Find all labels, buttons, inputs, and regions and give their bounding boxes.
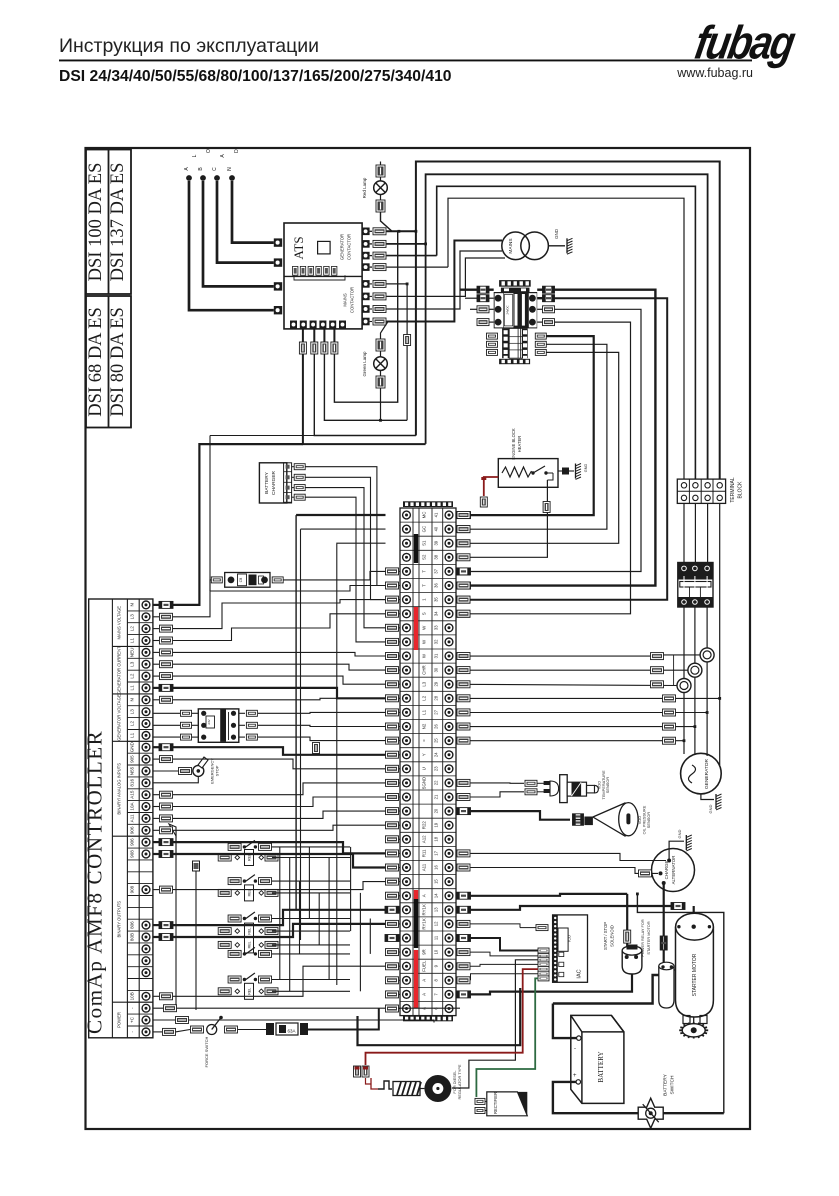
svg-text:A: A xyxy=(422,993,427,996)
svg-text:GENERATOR VOLTAGE: GENERATOR VOLTAGE xyxy=(117,694,122,741)
svg-text:HEATER: HEATER xyxy=(517,436,522,453)
svg-text:905: 905 xyxy=(130,755,135,763)
svg-text:NEU: NEU xyxy=(130,648,135,658)
svg-text:38: 38 xyxy=(434,554,439,559)
svg-text:STARTER MOTOR: STARTER MOTOR xyxy=(646,921,651,954)
svg-text:24: 24 xyxy=(434,752,439,757)
svg-text:29: 29 xyxy=(434,681,439,686)
svg-text:RY1K: RY1K xyxy=(422,918,427,929)
svg-text:12: 12 xyxy=(434,921,439,926)
svg-text:N: N xyxy=(130,603,135,606)
svg-text:906: 906 xyxy=(130,838,135,846)
svg-text:MAINS: MAINS xyxy=(508,238,514,253)
svg-text:U: U xyxy=(422,767,427,770)
svg-text:GC: GC xyxy=(422,526,427,533)
svg-text:GND: GND xyxy=(130,741,135,752)
svg-text:32: 32 xyxy=(434,639,439,644)
svg-text:17: 17 xyxy=(434,850,439,855)
svg-text:S2: S2 xyxy=(422,554,427,560)
svg-text:-: - xyxy=(574,1046,576,1052)
svg-text:A: A xyxy=(422,979,427,982)
svg-text:33: 33 xyxy=(434,625,439,630)
svg-text:RECTIFIER: RECTIFIER xyxy=(493,1092,498,1114)
svg-text:20: 20 xyxy=(434,808,439,813)
svg-text:SWITCH: SWITCH xyxy=(670,1075,676,1094)
svg-text:25: 25 xyxy=(434,738,439,743)
svg-text:CHARGER: CHARGER xyxy=(271,470,277,495)
svg-text:ENGINE BLOCK: ENGINE BLOCK xyxy=(511,428,516,460)
svg-text:MAINS VOLTAGE: MAINS VOLTAGE xyxy=(117,606,122,640)
svg-text:27: 27 xyxy=(434,709,439,714)
svg-text:ATS: ATS xyxy=(291,236,306,259)
svg-text:fubag: fubag xyxy=(691,17,799,70)
svg-text:GND: GND xyxy=(677,829,682,838)
svg-text:CHR: CHR xyxy=(422,665,427,675)
svg-text:BLOCK: BLOCK xyxy=(738,481,744,499)
svg-text:S1: S1 xyxy=(422,540,427,546)
svg-text:806: 806 xyxy=(130,921,135,929)
svg-text:MAINS: MAINS xyxy=(343,293,348,306)
svg-text:BATTERY: BATTERY xyxy=(264,471,270,493)
svg-text:37: 37 xyxy=(434,568,439,573)
svg-text:L3: L3 xyxy=(130,661,135,667)
svg-text:N: N xyxy=(227,167,233,171)
svg-text:28: 28 xyxy=(434,695,439,700)
svg-text:34: 34 xyxy=(434,611,439,616)
svg-text:10B: 10B xyxy=(130,992,135,1000)
svg-text:L2: L2 xyxy=(130,673,135,679)
svg-text:N2: N2 xyxy=(422,723,427,729)
svg-text:CB: CB xyxy=(239,578,243,582)
svg-text:STARTER MOTOR: STARTER MOTOR xyxy=(692,953,698,996)
svg-text:31: 31 xyxy=(434,653,439,658)
svg-text:POWER: POWER xyxy=(117,1012,122,1028)
svg-text:R22: R22 xyxy=(422,821,427,830)
svg-text:L3: L3 xyxy=(130,614,135,620)
svg-text:13: 13 xyxy=(434,907,439,912)
svg-text:Y: Y xyxy=(422,753,427,756)
svg-text:35: 35 xyxy=(434,597,439,602)
svg-text:RY1K: RY1K xyxy=(422,904,427,915)
svg-text:TCU: TCU xyxy=(568,935,572,943)
svg-text:BINARY/ ANALOG INPUTS: BINARY/ ANALOG INPUTS xyxy=(117,763,122,815)
svg-text:9R: 9R xyxy=(422,949,427,955)
svg-text:REGULATOR TYPE: REGULATOR TYPE xyxy=(457,1064,462,1099)
svg-text:REL: REL xyxy=(248,928,252,935)
svg-text:L2: L2 xyxy=(130,721,135,727)
svg-text:CONTACTOR: CONTACTOR xyxy=(350,287,355,313)
svg-text:S: S xyxy=(422,612,427,615)
svg-text:Green Lamp: Green Lamp xyxy=(362,351,367,377)
svg-text:Инструкция по эксплуатации: Инструкция по эксплуатации xyxy=(59,35,319,57)
svg-text:11: 11 xyxy=(434,935,439,940)
svg-text:908: 908 xyxy=(130,850,135,858)
svg-text:A12: A12 xyxy=(422,835,427,843)
svg-text:41: 41 xyxy=(434,512,439,517)
svg-text:18: 18 xyxy=(434,836,439,841)
svg-text:DSI 24/34/40/50/55/68/80/100/1: DSI 24/34/40/50/55/68/80/100/137/165/200… xyxy=(59,68,452,85)
svg-text:POWER RELAY FOR: POWER RELAY FOR xyxy=(640,919,645,957)
svg-text:L2: L2 xyxy=(130,626,135,632)
svg-text:DSI 137 DA ES: DSI 137 DA ES xyxy=(108,163,128,282)
svg-text:10A: 10A xyxy=(130,801,135,810)
svg-text:DSI 100 DA ES: DSI 100 DA ES xyxy=(86,163,106,282)
svg-text:10: 10 xyxy=(434,949,439,954)
svg-text:30: 30 xyxy=(434,667,439,672)
svg-text:5GND: 5GND xyxy=(422,777,427,789)
svg-text:GND: GND xyxy=(708,804,713,813)
svg-text:26: 26 xyxy=(434,724,439,729)
svg-text:L1: L1 xyxy=(130,732,135,738)
svg-text:L3: L3 xyxy=(422,681,427,686)
svg-text:SENSOR: SENSOR xyxy=(646,812,651,829)
svg-text:REL: REL xyxy=(248,889,252,896)
svg-text:L1: L1 xyxy=(130,638,135,644)
svg-text:BATTERY: BATTERY xyxy=(597,1051,605,1082)
svg-text:DSI 80 DA ES: DSI 80 DA ES xyxy=(108,307,128,416)
svg-text:GENERATOR: GENERATOR xyxy=(340,234,345,260)
svg-text:IAC: IAC xyxy=(577,969,583,978)
svg-text:N: N xyxy=(130,698,135,701)
svg-text:908: 908 xyxy=(130,885,135,893)
svg-text:L: L xyxy=(192,154,198,157)
svg-text:BINARY OUTPUTS: BINARY OUTPUTS xyxy=(117,901,122,938)
svg-text:36: 36 xyxy=(434,583,439,588)
svg-text:Red Lamp: Red Lamp xyxy=(362,177,367,198)
svg-text:23: 23 xyxy=(434,766,439,771)
svg-text:63A: 63A xyxy=(288,1029,296,1034)
svg-text:=: = xyxy=(422,739,427,742)
svg-text:A11: A11 xyxy=(130,814,135,822)
svg-text:FORCE SWITCH: FORCE SWITCH xyxy=(204,1036,209,1067)
svg-text:21: 21 xyxy=(434,794,439,799)
svg-text:T: T xyxy=(422,584,427,587)
svg-text:REL: REL xyxy=(248,988,252,995)
svg-text:22: 22 xyxy=(434,780,439,785)
svg-text:GENERATOR CURRENT: GENERATOR CURRENT xyxy=(117,646,122,694)
svg-text:O: O xyxy=(206,149,212,153)
svg-text:START / STOP: START / STOP xyxy=(603,922,608,950)
svg-text:L1: L1 xyxy=(130,685,135,691)
svg-text:N55: N55 xyxy=(130,766,135,775)
svg-text:14: 14 xyxy=(434,893,439,898)
svg-text:T: T xyxy=(422,570,427,573)
svg-text:SENSOR: SENSOR xyxy=(605,777,610,794)
svg-text:A15: A15 xyxy=(130,790,135,799)
svg-text:906: 906 xyxy=(130,826,135,834)
svg-text:L3: L3 xyxy=(130,709,135,715)
svg-text:+C: +C xyxy=(130,1016,135,1023)
svg-text:CHARGE: CHARGE xyxy=(664,861,669,880)
svg-text:MC: MC xyxy=(422,512,427,519)
svg-text:24V: 24V xyxy=(207,719,211,724)
svg-text:L2: L2 xyxy=(422,695,427,700)
svg-text:16: 16 xyxy=(434,865,439,870)
svg-text:BATTERY: BATTERY xyxy=(663,1073,669,1095)
svg-text:40: 40 xyxy=(434,526,439,531)
svg-text:TERMINAL: TERMINAL xyxy=(730,477,736,503)
svg-text:15: 15 xyxy=(434,879,439,884)
svg-text:C: C xyxy=(212,167,218,171)
svg-text:CONTACTOR: CONTACTOR xyxy=(347,234,352,260)
svg-text:GND: GND xyxy=(554,228,559,239)
svg-text:24VDC: 24VDC xyxy=(506,305,510,314)
svg-text:39: 39 xyxy=(434,540,439,545)
svg-text:L1: L1 xyxy=(422,709,427,714)
svg-text:GENERATOR: GENERATOR xyxy=(704,759,710,789)
svg-text:ComAp AMF8 CONTROLLER: ComAp AMF8 CONTROLLER xyxy=(83,730,107,1034)
svg-text:DSI 68 DA ES: DSI 68 DA ES xyxy=(86,307,106,416)
svg-text:816: 816 xyxy=(130,779,135,787)
svg-text:R11: R11 xyxy=(422,849,427,857)
svg-text:D: D xyxy=(234,149,240,153)
svg-text:STOP: STOP xyxy=(215,765,220,776)
svg-text:GND: GND xyxy=(584,464,588,473)
svg-text:REL: REL xyxy=(248,941,252,948)
svg-text:SOLENOID: SOLENOID xyxy=(610,925,615,947)
svg-text:A11: A11 xyxy=(422,863,427,871)
svg-text:80B: 80B xyxy=(130,933,135,941)
svg-text:+: + xyxy=(573,1073,577,1079)
svg-text:A: A xyxy=(422,894,427,897)
svg-text:ALTERNATOR: ALTERNATOR xyxy=(671,856,676,885)
svg-text:FUEL: FUEL xyxy=(422,960,427,972)
svg-text:19: 19 xyxy=(434,822,439,827)
